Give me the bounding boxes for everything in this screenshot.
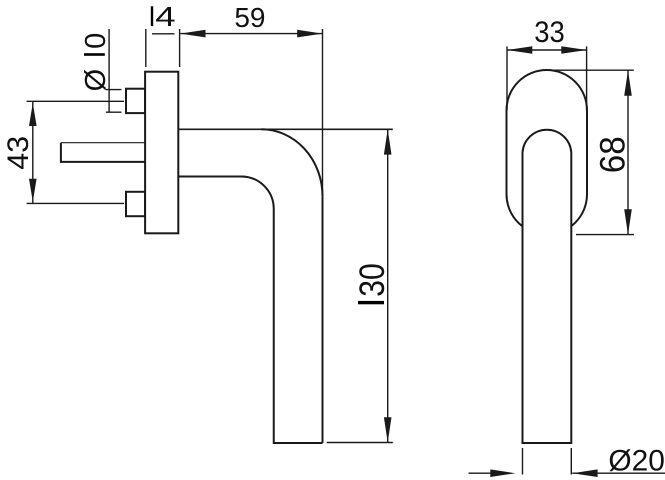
svg-text:Ø20: Ø20 — [608, 444, 665, 477]
dimension O20 lines — [469, 472, 665, 474]
dimension 59 line — [180, 33, 322, 35]
dimension 68 line — [627, 70, 629, 234]
svg-text:0: 0 — [80, 33, 112, 49]
handle inner edge and stem — [179, 176, 323, 443]
dimension 130 arrows — [384, 129, 392, 442]
dimension 33 line — [507, 49, 587, 51]
svg-text:4: 4 — [155, 1, 175, 32]
dimension 43 extension lines — [27, 101, 124, 203]
svg-text:59: 59 — [234, 2, 265, 33]
svg-text:Ø: Ø — [80, 69, 112, 92]
top screw — [126, 89, 145, 113]
rose plate side view — [145, 72, 178, 234]
spindle top edge — [61, 142, 145, 144]
label O10 : bar of digit 1 — [84, 53, 105, 56]
bottom screw — [126, 192, 145, 216]
handle right edge — [322, 196, 324, 443]
dimension O20 extension lines — [523, 448, 572, 475]
dimension O10 ticks — [106, 90, 122, 113]
handle neck front view — [523, 130, 572, 443]
rose front view stadium — [507, 70, 588, 235]
dimension 43 line — [32, 101, 34, 203]
handle top edge + 130 top extension line — [179, 128, 393, 130]
dimension 14 extension lines — [146, 29, 180, 67]
spindle — [61, 143, 145, 162]
label 130 : bar of digit 1 — [358, 301, 384, 304]
dimension 43 arrows — [29, 103, 37, 202]
dimension 68 arrows — [624, 70, 632, 234]
svg-text:33: 33 — [534, 16, 565, 49]
svg-text:43: 43 — [2, 136, 35, 170]
dimension 68 extension lines — [547, 70, 634, 234]
59 right extension line — [322, 29, 324, 196]
dimension O20 arrows — [490, 469, 597, 477]
dimension 33 arrows — [507, 46, 587, 54]
dimension 59 arrows — [180, 30, 322, 38]
dimension 33 extension lines — [507, 46, 587, 110]
dimension 130 line — [387, 129, 389, 442]
svg-text:68: 68 — [594, 136, 633, 173]
label 14 : bar of digit 1 — [151, 6, 153, 26]
dimension 14 line — [152, 33, 175, 35]
dimension O10 line — [108, 29, 110, 113]
handle outer curve — [261, 129, 322, 196]
dimension 130 bottom extension line — [327, 442, 393, 444]
svg-text:30: 30 — [353, 263, 392, 297]
